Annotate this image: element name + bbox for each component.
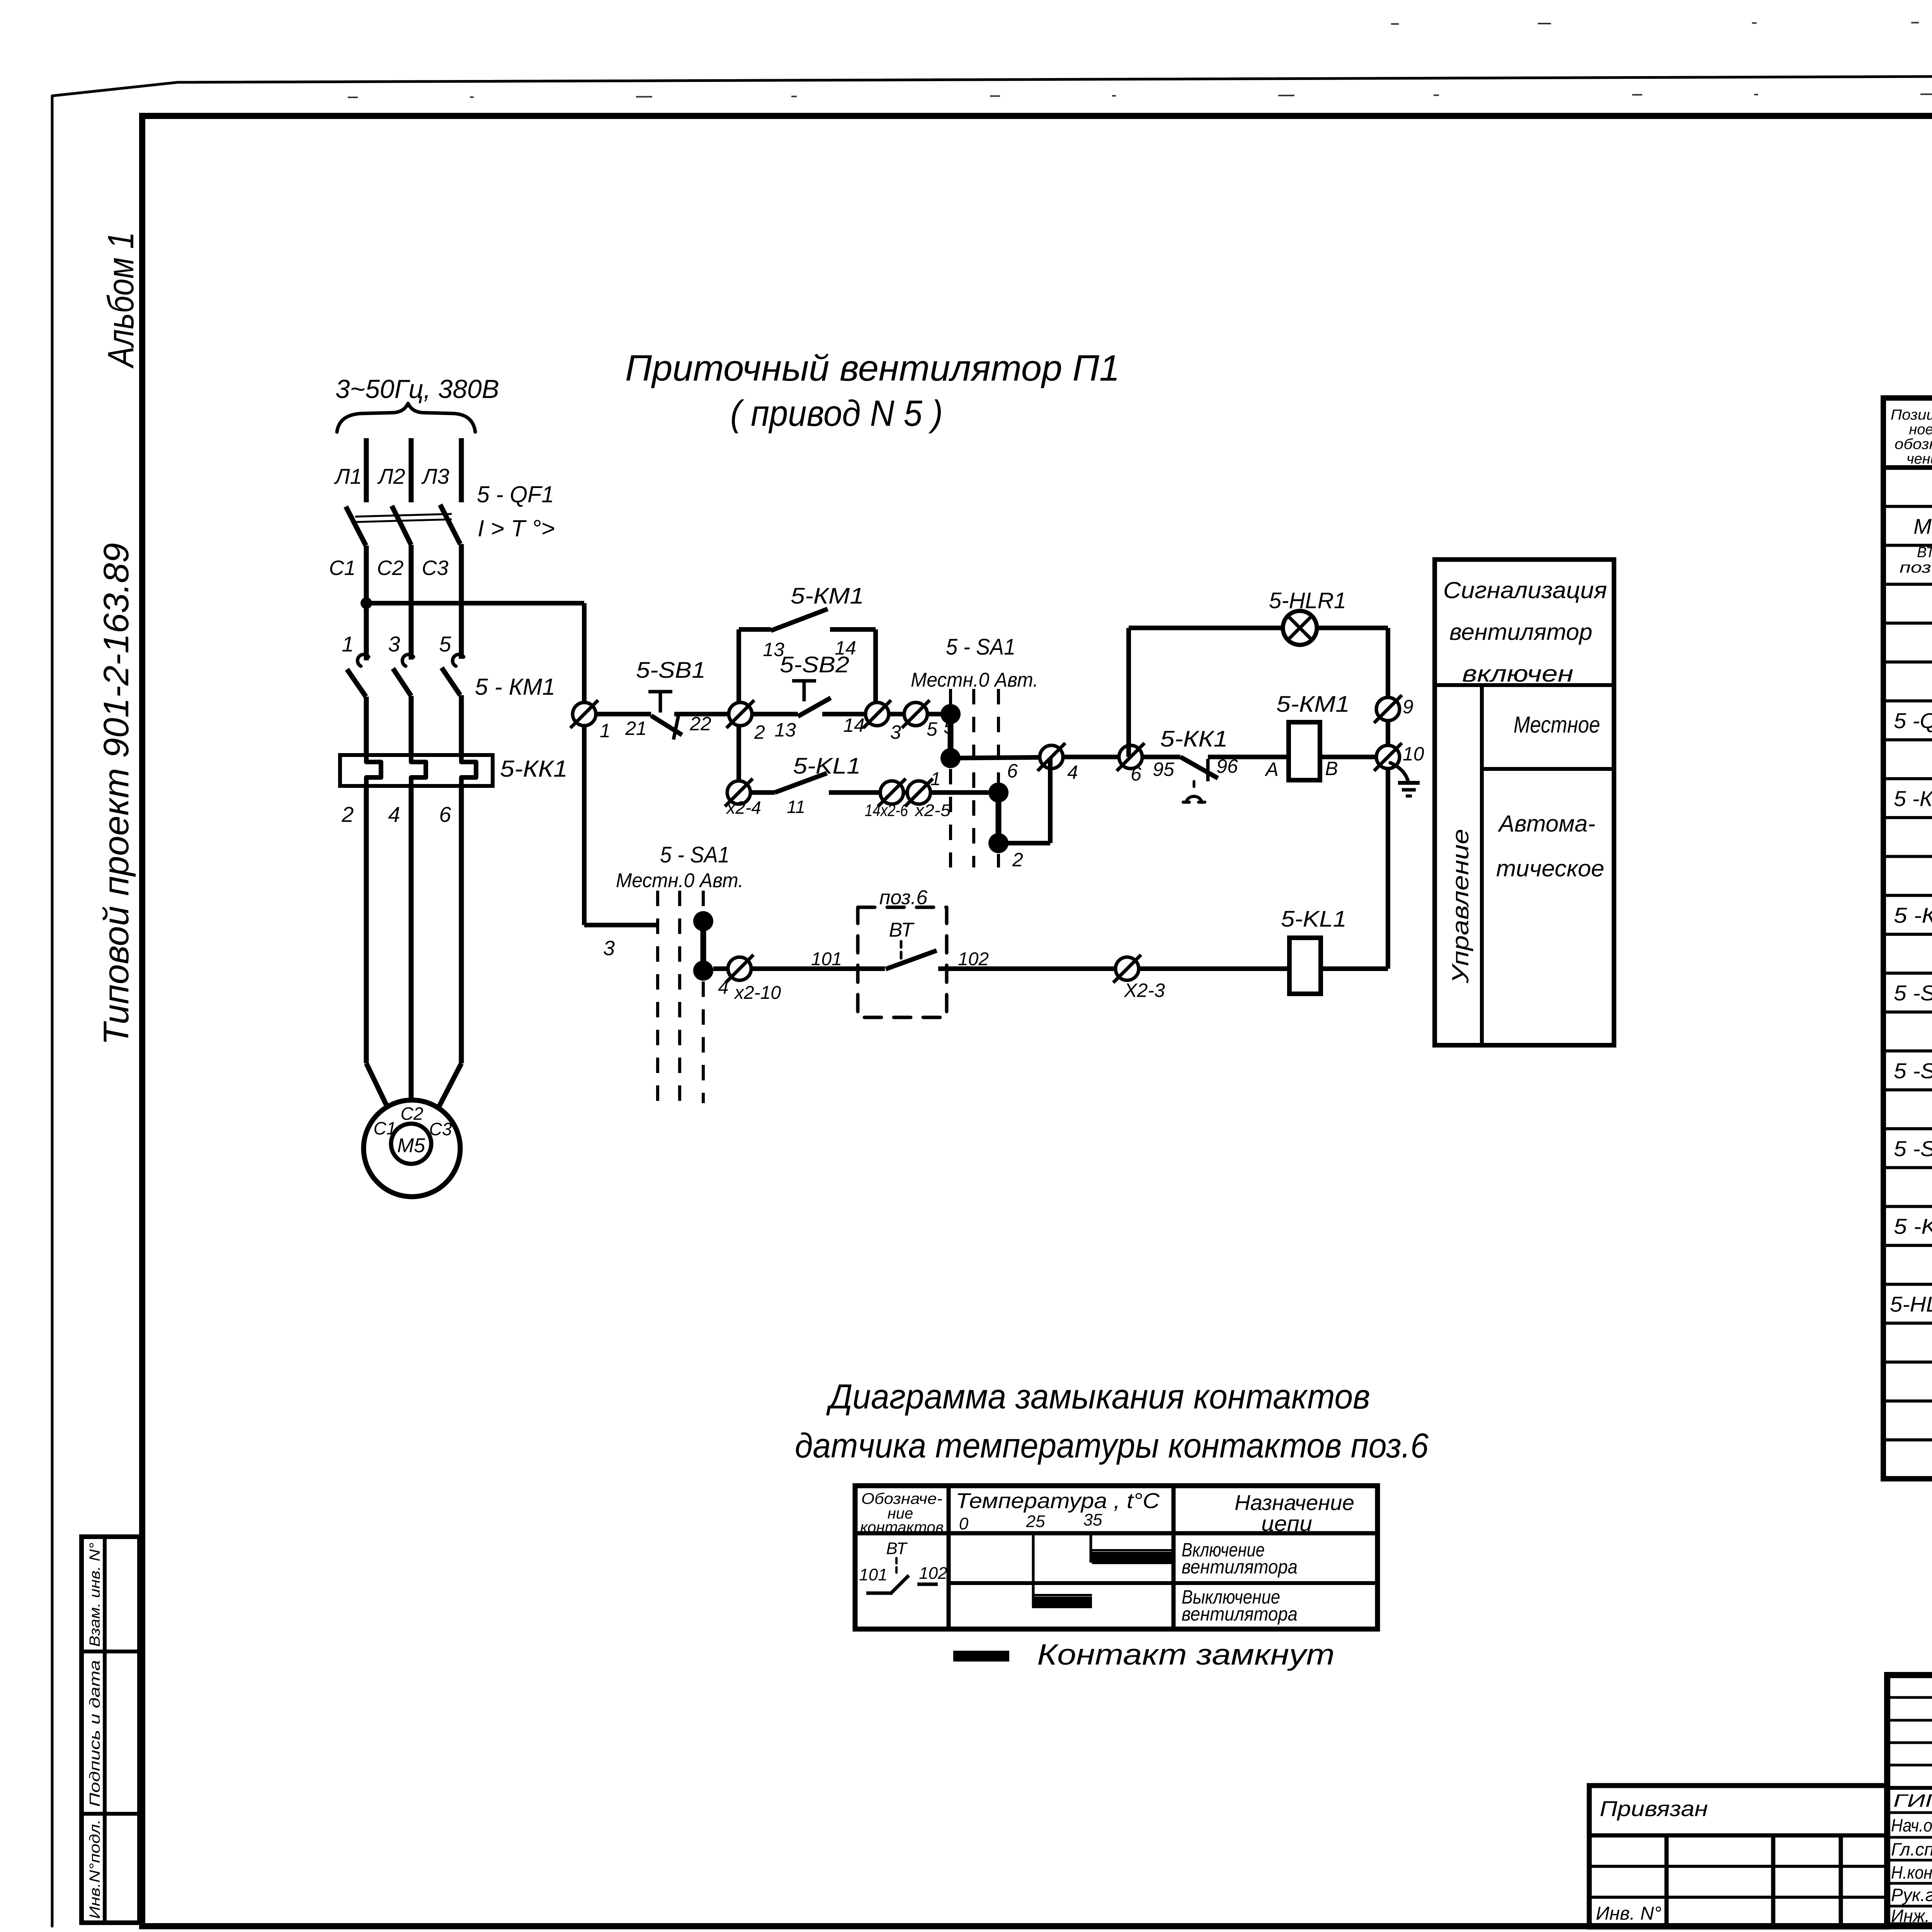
svg-text:Автома-: Автома- [1498, 811, 1595, 837]
pushbutton 5-SB2 start [792, 681, 831, 716]
svg-text:3: 3 [603, 937, 615, 960]
svg-text:101: 101 [859, 1565, 887, 1584]
title block signature role labels [1891, 1791, 1932, 1926]
table text Управление [1447, 829, 1473, 984]
svg-text:6: 6 [439, 802, 451, 827]
svg-text:чение: чение [1906, 451, 1932, 467]
table text Местное [1514, 712, 1600, 738]
thermal relay 5-KK1 NC contact [1153, 755, 1289, 802]
wire to terminal X2-10 [713, 966, 728, 971]
project note Типовой проект 901-2-163.89 [97, 543, 136, 1045]
stamp label Подпись и дата [87, 1660, 103, 1807]
svg-text:5: 5 [439, 632, 451, 656]
svg-text:Инж.: Инж. [1891, 1906, 1930, 1926]
contactor aux 5-KM1 holding contact [739, 609, 876, 702]
diagram header Назначение цепи [1235, 1490, 1354, 1536]
svg-text:2: 2 [1012, 849, 1023, 871]
svg-text:х2-5: х2-5 [914, 801, 951, 820]
svg-text:5-SB1: 5-SB1 [636, 658, 706, 683]
terminal 14x2-6 [865, 779, 908, 820]
wire control feeder vertical [582, 603, 587, 925]
label 5-SA1 lower [660, 842, 730, 867]
svg-text:13: 13 [774, 719, 796, 741]
svg-text:М5: М5 [397, 1134, 425, 1157]
svg-text:С1: С1 [374, 1118, 396, 1138]
wire terminal2 down to X2-4 [736, 726, 741, 781]
svg-text:5 - QF1: 5 - QF1 [477, 481, 554, 507]
diagram text Выключение вентилятора [1182, 1586, 1298, 1625]
diagram bar выключение [1032, 1595, 1092, 1608]
svg-text:В: В [1325, 758, 1338, 779]
svg-text:5-КМ1: 5-КМ1 [791, 583, 864, 609]
supply brace [337, 403, 475, 432]
element row M5 motor [1913, 511, 1932, 539]
wire terminal2 to SB2 [752, 712, 798, 716]
SA1 lower contact 3-4 [693, 911, 729, 998]
svg-text:1: 1 [342, 632, 354, 656]
diagram sensor contact symbol [859, 1539, 947, 1593]
table text Автоматическое [1496, 811, 1604, 881]
element row 5-КМ1 [1894, 784, 1932, 811]
svg-text:102: 102 [958, 949, 989, 969]
sensor contact [886, 941, 937, 969]
thermal relay 5-KK1 heaters [340, 755, 493, 786]
contactor 5-KM1 main contacts [347, 655, 464, 697]
label 5-SB1 [636, 658, 706, 683]
wire terminal4 to terminal6 [1063, 755, 1119, 759]
diagram bar включение [1092, 1550, 1173, 1564]
wire terminal3 to terminal5 [889, 712, 904, 716]
terminal X2-3 [1113, 955, 1165, 1001]
svg-text:С1: С1 [329, 556, 355, 580]
circuit breaker 5-QF1 poles [346, 505, 460, 546]
svg-text:С2: С2 [401, 1104, 423, 1124]
wire SB1 to terminal 2 [674, 712, 729, 716]
title block frame [1887, 1675, 1932, 1925]
svg-text:ВТ: ВТ [886, 1539, 908, 1558]
wire 102 to X2-3 [938, 949, 1116, 969]
svg-text:Позицион-: Позицион- [1891, 407, 1932, 423]
svg-text:поз.6: поз.6 [879, 886, 928, 909]
svg-text:Местн.0 Авт.: Местн.0 Авт. [616, 869, 743, 892]
svg-text:Диаграмма замыкания контак: Диаграмма замыкания контактов [826, 1378, 1370, 1416]
terminal X2-4 [725, 779, 761, 818]
svg-text:5-HLR1: 5-HLR1 [1890, 1292, 1932, 1316]
svg-text:датчика температуры контак: датчика температуры контактов поз.6 [795, 1427, 1429, 1465]
scan noise top band [348, 21, 1932, 97]
terminal X2-5 [905, 769, 951, 820]
svg-text:6: 6 [1007, 760, 1018, 782]
svg-text:ВТ: ВТ [1917, 544, 1932, 561]
wire 101 to sensor [751, 949, 885, 969]
svg-text:21: 21 [625, 718, 647, 739]
svg-text:Местн.0 Авт.: Местн.0 Авт. [911, 669, 1038, 691]
diagram tick lines 25 35 [1033, 1533, 1091, 1607]
svg-text:( привод N 5 ): ( привод N 5 ) [730, 393, 943, 434]
svg-text:вентилятора: вентилятора [1182, 1603, 1298, 1625]
schematic title line 2 [730, 393, 943, 434]
element row 5-SA1 [1894, 978, 1932, 1006]
svg-text:95: 95 [1153, 759, 1174, 780]
svg-text:ВТ: ВТ [889, 919, 915, 941]
svg-text:Л2: Л2 [377, 464, 405, 488]
element table frame [1883, 398, 1932, 1479]
cam switch 5-SA1 upper dashed columns [951, 689, 998, 867]
svg-text:вентилятор: вентилятор [1449, 619, 1592, 645]
svg-text:3: 3 [890, 721, 901, 743]
terminal 1 [570, 700, 611, 742]
svg-text:5 -SB2: 5 -SB2 [1894, 1136, 1932, 1161]
wire vertical terminal10 to KL1 coil return [1386, 769, 1390, 969]
wire phase stubs L1 L2 L3 [366, 438, 461, 502]
svg-text:5-KL1: 5-KL1 [793, 753, 861, 779]
svg-text:х2-4: х2-4 [726, 798, 761, 818]
svg-text:Температура , t°С: Температура , t°С [956, 1488, 1160, 1513]
wire row2 to terminal 4 [951, 757, 1040, 782]
svg-text:I > T °>: I > T °> [478, 515, 555, 541]
element row 5-HLR1 [1890, 1289, 1932, 1317]
pushbutton 5-SB1 stop [648, 692, 682, 740]
table text Сигнализация вентилятор включен [1443, 577, 1607, 687]
diagram header Обозначение контактов [860, 1490, 944, 1536]
svg-text:6: 6 [1131, 763, 1141, 785]
signal lamp 5-HLR1 [1269, 588, 1346, 645]
label 5-КК1 contact [1160, 726, 1228, 752]
element row 5-KL1 [1894, 1211, 1932, 1239]
svg-text:9: 9 [1403, 696, 1413, 718]
svg-text:25: 25 [1026, 1512, 1045, 1531]
label 5-КМ1 main [475, 674, 555, 700]
svg-text:14х2-6: 14х2-6 [865, 801, 908, 820]
svg-text:контактов: контактов [860, 1519, 944, 1536]
relay contact 5-KL1 NO [750, 753, 880, 817]
element row 5-КК1 [1894, 900, 1932, 928]
svg-text:35: 35 [1083, 1510, 1102, 1529]
stamp label Инв.N подл. [87, 1819, 103, 1919]
svg-text:102: 102 [919, 1564, 947, 1583]
svg-text:5 - SA1: 5 - SA1 [946, 634, 1015, 660]
wire 3 from feeder to SA1 lower [584, 925, 659, 960]
svg-text:вентилятора: вентилятора [1182, 1556, 1298, 1578]
diagram table frame [855, 1486, 1378, 1629]
svg-text:5-КК1: 5-КК1 [500, 756, 568, 782]
svg-text:Инв.N°подл.: Инв.N°подл. [87, 1819, 103, 1919]
svg-text:включен: включен [1462, 661, 1573, 687]
wire terminal6 to KK1 contact [1142, 755, 1180, 759]
SA1 contact Авт 1-2 [988, 758, 1050, 871]
svg-text:цепи: цепи [1261, 1511, 1312, 1536]
wire terminal5 to SA1 [927, 712, 945, 716]
svg-text:5 -QF1: 5 -QF1 [1894, 709, 1932, 733]
svg-text:5-КК1: 5-КК1 [1160, 726, 1228, 752]
svg-text:Альбом 1: Альбом 1 [100, 232, 141, 369]
wire segments C1 C2 C3 [366, 544, 461, 660]
svg-text:С2: С2 [377, 556, 403, 580]
label 5-QF1 [477, 481, 554, 507]
control function table frame [1435, 560, 1614, 1045]
svg-text:Гл.спец: Гл.спец [1891, 1839, 1932, 1859]
svg-text:96: 96 [1216, 755, 1238, 777]
SA1 contact Местн 5-6 [940, 704, 961, 768]
terminal labels 2 4 6 [341, 802, 451, 827]
svg-text:4: 4 [388, 802, 400, 827]
label 5-SA1 upper [946, 634, 1015, 660]
label Местн.0 Авт. upper [911, 669, 1038, 691]
label 5-КК1 [500, 756, 568, 782]
wire X2-3 to KL1 coil [1139, 966, 1289, 971]
svg-text:Управление: Управление [1447, 829, 1473, 984]
terminal 10 [1374, 743, 1424, 771]
svg-text:Взам. инв. N°: Взам. инв. N° [87, 1543, 103, 1647]
element row 5-SB2 [1894, 1134, 1932, 1162]
svg-text:Подпись и дата: Подпись и дата [87, 1660, 103, 1807]
svg-text:3~50Гц, 380В: 3~50Гц, 380В [335, 374, 499, 404]
diagram text Включение вентилятора [1182, 1539, 1298, 1578]
svg-text:Х2-3: Х2-3 [1124, 980, 1165, 1001]
control tap wire and junction [361, 597, 584, 609]
svg-text:5: 5 [927, 718, 937, 740]
wire KL1 coil to vertical [1321, 966, 1388, 971]
labels 13 14 row [774, 714, 865, 741]
svg-text:Типовой проект 901-2-163.89: Типовой проект 901-2-163.89 [97, 543, 136, 1045]
terminal 2 [726, 700, 765, 743]
wire segments to motor [366, 786, 461, 1107]
wire segments into thermal relay [366, 695, 461, 755]
svg-text:Нач.отд.: Нач.отд. [1891, 1815, 1932, 1835]
cam switch 5-SA1 lower dashed columns [658, 891, 703, 1103]
contactor coil 5-KM1 [1264, 692, 1350, 780]
svg-text:5 -SA1: 5 -SA1 [1894, 981, 1932, 1005]
svg-text:Л1: Л1 [334, 464, 362, 488]
svg-text:101: 101 [811, 949, 842, 969]
lamp branch left vertical [1129, 628, 1283, 757]
label I>T°> [478, 515, 555, 541]
svg-text:Л3: Л3 [421, 464, 449, 488]
terminal 6 [1117, 743, 1145, 785]
element row 5-SB1 [1894, 1056, 1932, 1083]
svg-text:4: 4 [1067, 762, 1078, 783]
svg-text:Инв. N°: Инв. N° [1596, 1903, 1662, 1924]
svg-text:5 -КМ1: 5 -КМ1 [1894, 786, 1932, 811]
terminal 5 [902, 700, 954, 740]
terminal labels 1 3 5 [342, 632, 451, 656]
stamp label Взам.инв.N [87, 1543, 103, 1647]
svg-text:Рук.гр.: Рук.гр. [1891, 1885, 1932, 1905]
wire to terminal X2-5 [903, 790, 907, 795]
svg-text:5 - КМ1: 5 - КМ1 [475, 674, 555, 700]
svg-text:11: 11 [787, 797, 805, 817]
wire X2-5 to SA1 Авт [930, 790, 988, 795]
label 5-SB2 [780, 652, 849, 677]
labels C1 C2 C3 [329, 556, 448, 580]
terminal 3 [863, 700, 901, 743]
svg-text:тическое: тическое [1496, 855, 1604, 881]
svg-text:Привязан: Привязан [1600, 1796, 1708, 1821]
svg-text:Контакт замкнут: Контакт замкнут [1037, 1638, 1335, 1671]
svg-text:3: 3 [388, 632, 400, 656]
svg-text:5-HLR1: 5-HLR1 [1269, 588, 1346, 613]
element row 5-QF1 [1894, 706, 1932, 734]
temperature sensor BT поз.6 box [858, 907, 947, 1017]
wire coil to terminal 10 [1320, 755, 1376, 759]
svg-text:А: А [1264, 759, 1278, 780]
svg-text:5 -КК1: 5 -КК1 [1894, 903, 1932, 927]
svg-text:поз. 6: поз. 6 [1900, 559, 1932, 576]
svg-text:5-КМ1: 5-КМ1 [1276, 692, 1350, 717]
ground symbol [1390, 763, 1420, 796]
element table row lines [1883, 507, 1932, 1440]
svg-text:2: 2 [341, 802, 354, 827]
diagram title line 2 [795, 1427, 1429, 1465]
terminal 4 [1037, 743, 1078, 783]
label 5-КМ1 aux [791, 583, 864, 609]
svg-text:10: 10 [1403, 743, 1424, 765]
svg-text:М5: М5 [1913, 514, 1932, 538]
diagram header Температура [956, 1488, 1160, 1533]
svg-text:5-KL1: 5-KL1 [1281, 906, 1347, 932]
labels 21 22 [625, 713, 711, 739]
svg-text:2: 2 [754, 721, 765, 743]
svg-text:1: 1 [600, 720, 611, 742]
svg-text:5-SB2: 5-SB2 [780, 652, 849, 677]
svg-text:5 -SB1: 5 -SB1 [1894, 1058, 1932, 1083]
svg-text:х2-10: х2-10 [734, 983, 781, 1003]
label Местн.0 Авт. lower [616, 869, 743, 892]
stamp column frame [82, 1537, 139, 1923]
svg-text:Местное: Местное [1514, 712, 1600, 738]
title block row lines left part [1887, 1697, 1932, 1906]
wire SB2 to terminal 3 [822, 712, 866, 716]
svg-text:5 - SA1: 5 - SA1 [660, 842, 730, 867]
svg-text:5 -KL1: 5 -KL1 [1894, 1214, 1932, 1238]
svg-text:ГИП: ГИП [1893, 1791, 1932, 1811]
attachment table Привязан [1589, 1786, 1887, 1927]
svg-text:1: 1 [930, 769, 941, 789]
element row ВТ поз.6 sensor [1900, 544, 1932, 578]
svg-text:14: 14 [843, 714, 865, 736]
phase labels Л1 Л2 Л3 [334, 464, 449, 488]
diagram legend Контакт замкнут [953, 1638, 1335, 1671]
element table header texts [1891, 407, 1932, 467]
svg-text:ное: ное [1909, 422, 1932, 438]
svg-text:Н.контр.: Н.контр. [1891, 1862, 1932, 1883]
svg-text:0: 0 [959, 1514, 969, 1533]
relay coil 5-KL1 [1281, 906, 1347, 994]
wire row1 to SB1 [596, 712, 651, 716]
svg-text:Приточный вентилятор П1: Приточный вентилятор П1 [625, 348, 1120, 389]
supply label 3~50Гц 380В [335, 374, 499, 404]
lamp branch right vertical with terminal 9 [1317, 628, 1413, 745]
motor M5 [364, 1100, 460, 1197]
album note Альбом 1 [100, 232, 141, 369]
terminal X2-10 [726, 955, 781, 1003]
svg-text:обозна-: обозна- [1895, 436, 1932, 452]
diagram title line 1 [826, 1378, 1370, 1416]
labels 13 14 aux [763, 637, 856, 660]
svg-text:С3: С3 [422, 556, 448, 580]
svg-text:С3: С3 [429, 1119, 452, 1139]
svg-text:Сигнализация: Сигнализация [1443, 577, 1607, 603]
schematic title line 1 [625, 348, 1120, 389]
